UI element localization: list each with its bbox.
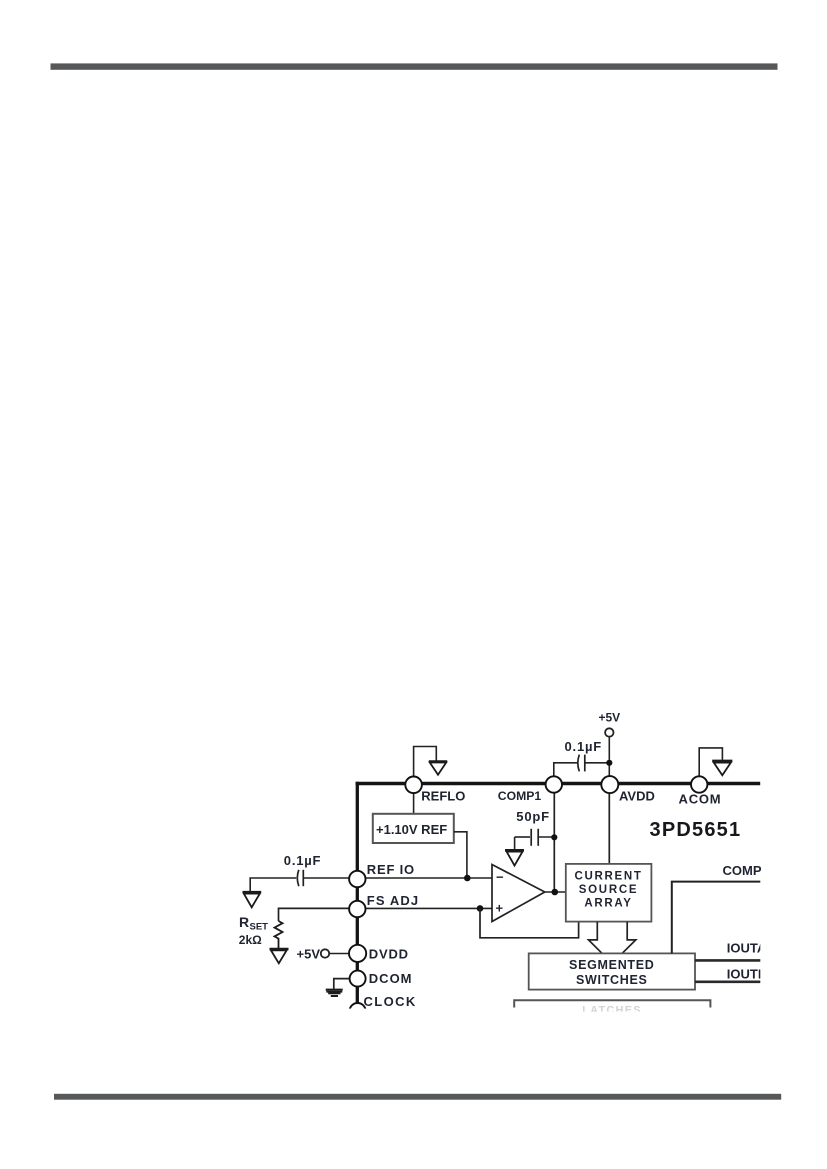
svg-text:DCOM: DCOM [369, 971, 413, 986]
svg-text:+5V: +5V [297, 946, 321, 961]
svg-text:ARRAY: ARRAY [584, 898, 632, 910]
svg-text:IOUTA: IOUTA [727, 941, 767, 956]
svg-text:CLOCK: CLOCK [364, 994, 417, 1009]
svg-text:ACOM: ACOM [679, 792, 722, 807]
svg-text:SOURCE: SOURCE [579, 884, 638, 896]
svg-text:R: R [239, 914, 249, 930]
svg-text:IOUTB: IOUTB [727, 967, 767, 982]
svg-text:+5V: +5V [599, 711, 621, 725]
svg-text:+: + [496, 901, 504, 916]
svg-text:2kΩ: 2kΩ [239, 933, 262, 947]
svg-text:COMP1: COMP1 [498, 789, 542, 803]
svg-text:FS ADJ: FS ADJ [367, 893, 419, 908]
svg-text:AVDD: AVDD [619, 789, 655, 804]
svg-text:0.1µF: 0.1µF [284, 853, 322, 868]
svg-text:3PD5651: 3PD5651 [650, 819, 742, 841]
svg-text:−: − [496, 870, 504, 885]
svg-text:REFLO: REFLO [421, 789, 465, 804]
svg-text:CURRENT: CURRENT [574, 871, 642, 883]
svg-text:SEGMENTED: SEGMENTED [569, 958, 654, 972]
svg-text:50pF: 50pF [516, 809, 550, 824]
svg-text:DVDD: DVDD [369, 947, 409, 962]
svg-text:+1.10V REF: +1.10V REF [376, 822, 447, 837]
svg-text:SWITCHES: SWITCHES [576, 973, 648, 987]
svg-text:0.1µF: 0.1µF [565, 739, 603, 754]
svg-text:COMP: COMP [723, 863, 762, 878]
svg-text:SET: SET [250, 922, 269, 933]
svg-text:REF IO: REF IO [367, 862, 415, 877]
